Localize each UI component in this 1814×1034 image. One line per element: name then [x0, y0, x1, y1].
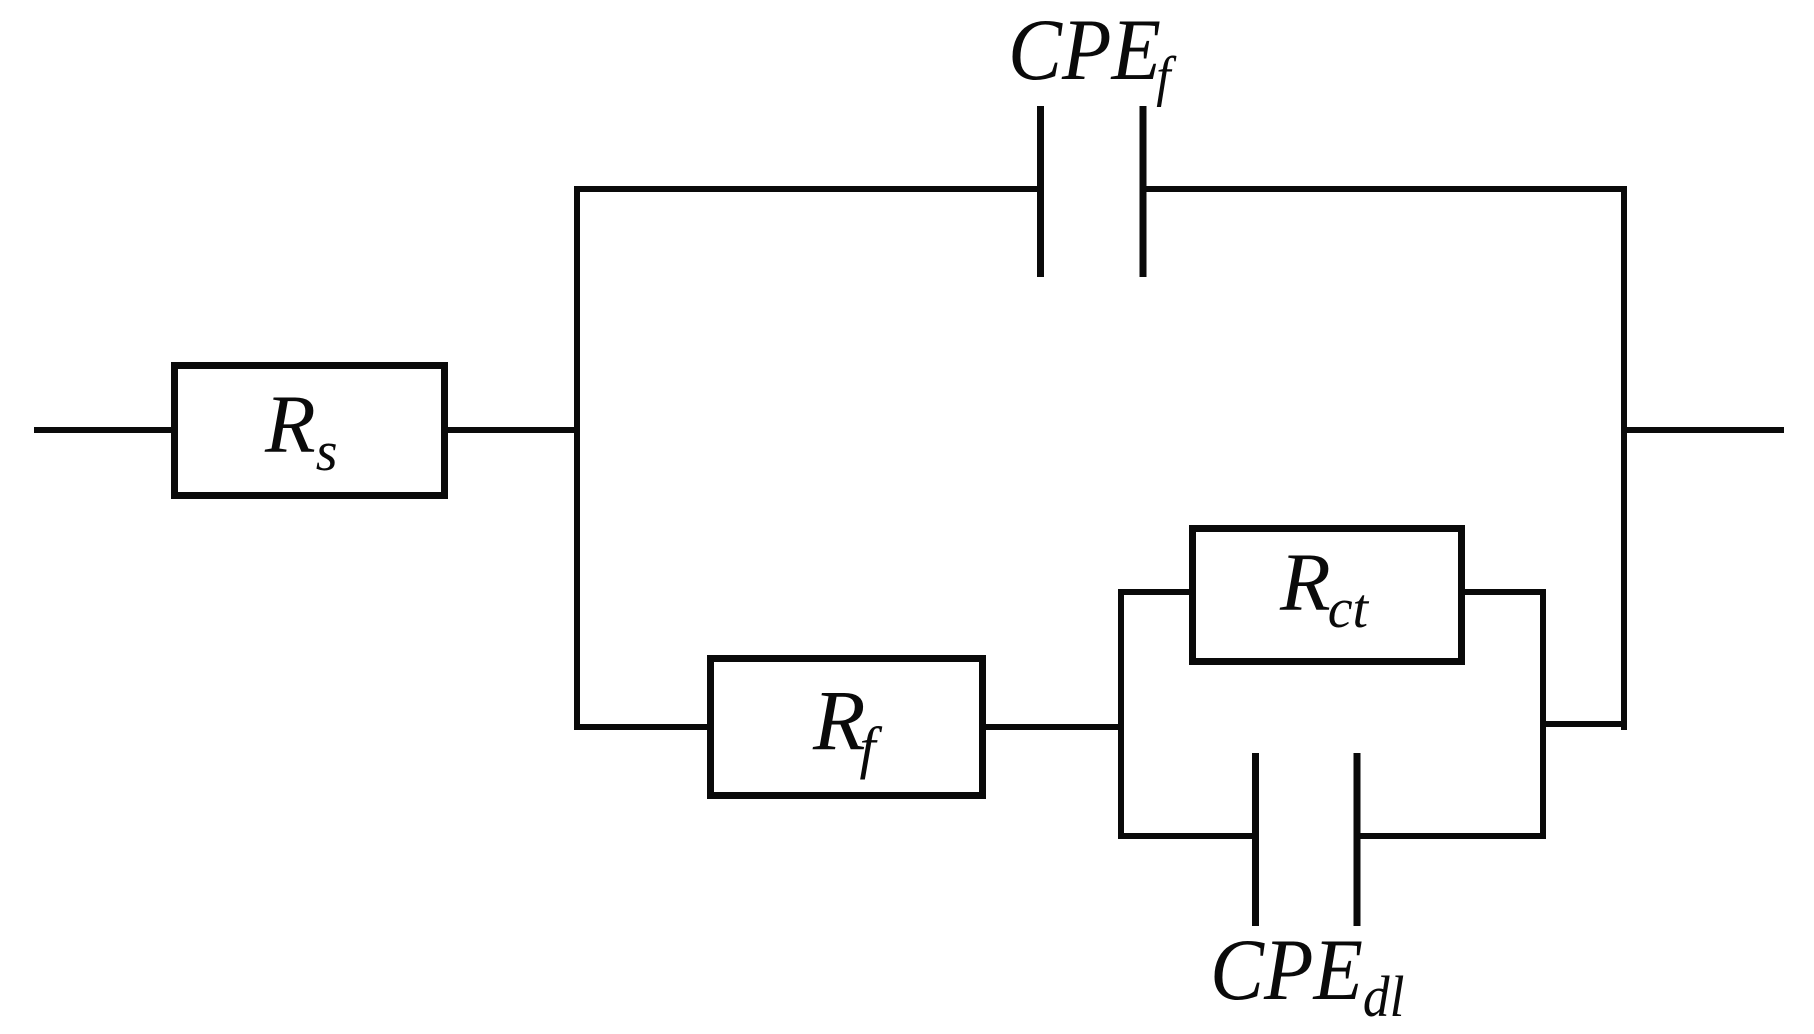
svg-text:Rs: Rs — [264, 378, 338, 483]
svg-text:CPEdl: CPEdl — [1210, 922, 1404, 1030]
svg-text:Rf: Rf — [812, 672, 883, 780]
svg-text:CPEf: CPEf — [1008, 2, 1177, 108]
svg-text:Rct: Rct — [1279, 536, 1370, 640]
